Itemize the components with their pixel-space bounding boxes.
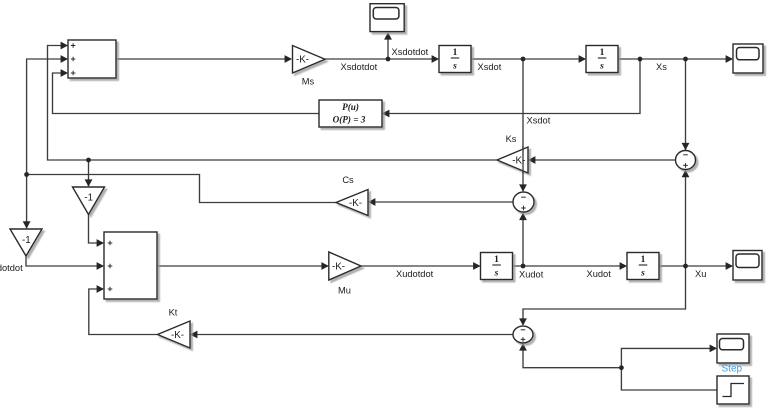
svg-text:Step: Step <box>722 363 743 374</box>
signs sum circle S5 <box>521 329 526 331</box>
wire branch up to scope1 <box>387 33 389 59</box>
svg-text:Xu: Xu <box>695 269 706 279</box>
wire junction down to -1 left <box>26 175 28 229</box>
svg-text:-K-: -K- <box>332 262 345 273</box>
wire Mu output to integrator3 <box>361 265 480 267</box>
svg-text:-K-: -K- <box>296 55 309 66</box>
arrowhead into S1 input2 <box>61 55 68 63</box>
gain Ms <box>293 46 326 74</box>
arrowhead into integrator I2 <box>579 55 586 63</box>
svg-text:Cs: Cs <box>342 175 354 185</box>
gain Mu <box>329 252 361 280</box>
wire Xsdot branch down to midsum <box>522 59 524 191</box>
scope Scope2 (right top) <box>733 44 763 73</box>
node Ks-line junction <box>86 158 91 163</box>
wire Ks output to sum1 input1, junction at x88 <box>48 46 498 161</box>
arrowhead into S2 input2 <box>97 262 104 270</box>
integrator I2 <box>586 46 618 73</box>
arrowhead into -1 left <box>23 221 31 228</box>
gain Cs <box>336 190 368 216</box>
svg-text:Xs: Xs <box>656 62 667 72</box>
wire Xu branch down to bottomsum top <box>523 266 686 325</box>
wire P(u) output to sum1 input3 <box>53 73 320 114</box>
arrowhead into Scope1 <box>384 32 392 39</box>
wire integrator1 to integrator2 <box>471 58 585 60</box>
integrator I4 <box>627 253 659 280</box>
gain -1 left <box>10 229 42 256</box>
arrowhead into integrator I3 <box>473 262 480 270</box>
arrowhead into right sum bottom <box>682 170 690 177</box>
arrowhead into Cs <box>368 198 375 206</box>
gain Kt <box>158 321 191 348</box>
svg-text:O(P) = 3: O(P) = 3 <box>333 115 366 125</box>
arrowhead into integrator I1 <box>432 55 439 63</box>
source Step block <box>717 376 749 404</box>
node Xudot junction <box>521 264 526 269</box>
arrowhead into Ms <box>285 55 292 63</box>
node Cs-line junction <box>24 172 29 177</box>
sum circle S5 (bottom) <box>513 326 533 343</box>
svg-text:Mu: Mu <box>338 285 351 295</box>
wire Ms output to integrator1, junction Xsdotdot <box>325 58 438 60</box>
wire sum2 output to Mu <box>157 265 328 267</box>
svg-text:Ks: Ks <box>506 134 517 144</box>
integrator I3 <box>481 253 513 280</box>
node Xs junction to P(u) <box>638 57 643 62</box>
svg-text:dotdot: dotdot <box>0 263 23 273</box>
scope Scope3 (right mid) <box>733 251 762 281</box>
svg-text:-K-: -K- <box>349 198 362 209</box>
svg-text:1: 1 <box>600 48 605 58</box>
svg-text:s: s <box>640 269 645 279</box>
wire Cs output to junction x26.6 <box>27 175 336 203</box>
wire bottomsum output to Kt <box>191 334 513 336</box>
svg-text:Xsdot: Xsdot <box>478 62 502 72</box>
arrowhead into -1 mid <box>85 179 93 186</box>
integrator fractions <box>451 48 460 72</box>
sum block S1 (top-left) <box>68 40 116 78</box>
svg-text:-K-: -K- <box>171 330 184 341</box>
signs sum circle S3 <box>683 154 688 156</box>
node Xs junction to sum <box>683 57 688 62</box>
node Xu junction <box>683 264 688 269</box>
wire integrator2 to scope2 <box>618 58 732 60</box>
svg-text:-1: -1 <box>22 235 31 246</box>
sum block S2 (lower-left) <box>104 232 157 299</box>
svg-text:1: 1 <box>494 255 499 265</box>
wire junction up to sum1 input2 <box>27 59 67 175</box>
wire -1 mid output to sum2 input1 <box>89 215 104 244</box>
node Xsdotdot junction <box>386 57 391 62</box>
wire Xudot branch up to midsum bottom <box>522 213 524 266</box>
sum circle S4 (mid) <box>513 192 534 212</box>
arrowhead into bottom sum bottom <box>519 343 527 350</box>
plus signs sum S2 <box>108 241 113 246</box>
wire Xs branch to P(u) <box>383 59 640 114</box>
svg-text:Xsdotdot: Xsdotdot <box>392 47 429 57</box>
gain -1 mid <box>73 187 105 215</box>
wire Xu branch up to rightsum bottom <box>685 171 687 267</box>
arrowhead into Scope2 <box>726 55 733 63</box>
arrowhead into mid sum top <box>519 184 527 191</box>
svg-text:s: s <box>494 269 499 279</box>
wire integrator3 to integrator4, junction Xudot <box>513 265 627 267</box>
wire rightsum output to Ks <box>529 159 676 161</box>
scope Scope1 (top) <box>370 4 404 32</box>
scope Scope4 (bottom right) <box>717 334 749 363</box>
arrowhead into mid sum bottom <box>519 213 527 220</box>
svg-text:1: 1 <box>641 255 646 265</box>
arrowhead into bottom sum top <box>519 318 527 325</box>
plus signs sum S1 <box>71 43 76 48</box>
wire sum1 output to Ms <box>116 58 291 60</box>
arrowhead into S1 input1 <box>61 42 68 50</box>
arrowhead into Ks <box>528 156 535 164</box>
svg-text:Xsdotdot: Xsdotdot <box>341 62 378 72</box>
svg-text:Xudotdot: Xudotdot <box>396 269 434 279</box>
arrowhead into integrator I4 <box>620 262 627 270</box>
svg-text:Xudot: Xudot <box>519 269 544 279</box>
wire Xs branch down to rightsum <box>685 59 687 150</box>
arrowhead into P(u) <box>382 110 389 118</box>
svg-text:-K-: -K- <box>512 156 525 167</box>
svg-text:Xudot: Xudot <box>587 269 612 279</box>
arrowhead into Scope4 <box>710 345 717 353</box>
arrowhead into right sum top <box>682 143 690 150</box>
wire Step to scope4 with junction <box>621 348 717 390</box>
wire midsum output to Cs <box>369 201 513 203</box>
wire branch down to -1 mid <box>88 160 90 186</box>
svg-text:1: 1 <box>453 48 458 58</box>
svg-text:P(u): P(u) <box>342 102 359 112</box>
arrowhead into Mu <box>321 262 328 270</box>
signs sum circle S4 <box>521 196 526 198</box>
polynomial block P(u) <box>319 100 382 127</box>
wire Kt output to sum2 input3 <box>89 289 158 335</box>
arrowhead into S2 input1 <box>97 239 104 247</box>
arrowhead into S2 input3 <box>97 285 104 293</box>
svg-text:-1: -1 <box>84 193 93 204</box>
node Step-line junction <box>619 365 624 370</box>
sum circle S3 (right) <box>676 151 696 170</box>
svg-text:Xsdot: Xsdot <box>527 115 551 125</box>
node Xsdot junction <box>521 57 526 62</box>
wire -1 left output to sum2 input2 <box>26 256 103 266</box>
svg-text:Ms: Ms <box>302 76 315 86</box>
arrowhead into S1 input3 <box>61 69 68 77</box>
gain Ks <box>497 147 528 173</box>
arrowhead into Scope3 <box>726 262 733 270</box>
wire Xsdot overlay through Ks <box>522 146 524 174</box>
svg-text:s: s <box>599 62 604 72</box>
wire integrator4 to scope3 <box>659 265 732 267</box>
wire branch junction to bottomsum bottom <box>523 344 621 368</box>
arrowhead into Kt <box>190 331 197 339</box>
svg-text:s: s <box>452 62 457 72</box>
svg-text:Kt: Kt <box>169 308 178 318</box>
integrator I1 <box>439 46 471 73</box>
